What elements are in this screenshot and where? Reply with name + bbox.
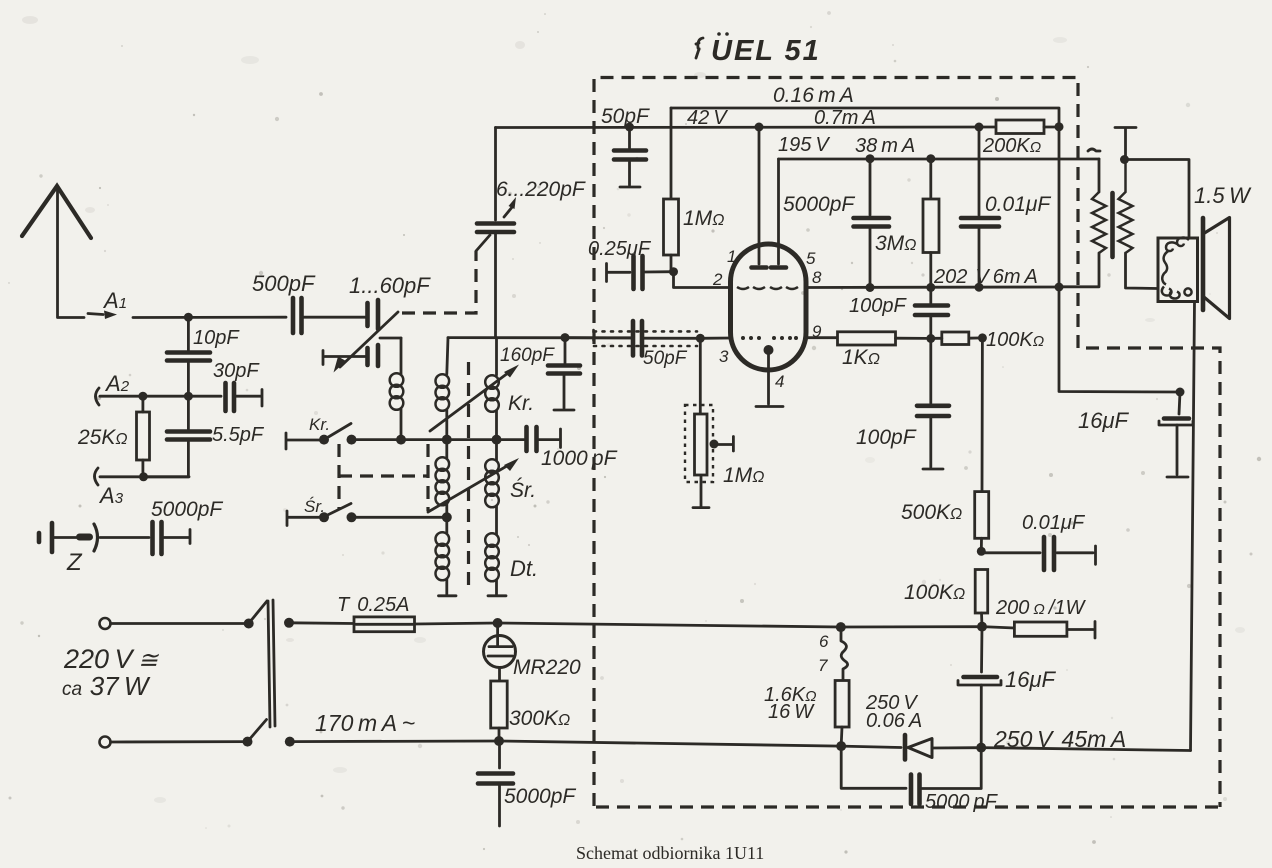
rectifier MR220 [484,623,582,681]
junction heater tap [836,622,846,632]
inductor coil A top section [436,338,450,440]
junction 16uF output [1176,388,1185,397]
wire A3 [100,475,189,478]
junction Kr contact [347,435,357,445]
wire speaker return [1191,302,1195,751]
svg-text:T 0.25A: T 0.25A [337,594,410,616]
switch Sr [287,497,351,526]
svg-text:Schemat odbiornika 1U11: Schemat odbiornika 1U11 [576,843,764,863]
transformer primary bottom lead [1059,253,1099,287]
svg-text:2: 2 [712,270,723,289]
junction mains switch top [244,619,254,629]
capacitor 30pF [213,360,262,411]
trimmer capacitor 1...60pF [323,273,431,373]
speaker cone [1205,218,1230,319]
antenna [22,186,117,319]
svg-text:Z: Z [66,549,83,576]
inductor coil A mid section [436,440,450,518]
arrow tuning Sr core [428,458,519,512]
svg-text:Dt.: Dt. [510,556,538,581]
transformer primary lead [1098,159,1101,192]
wire B+ vertical lower [1059,287,1180,392]
wire coil top bus [448,336,631,339]
resistor 300K [491,681,571,741]
wire Kr bus [352,438,525,441]
junction 0.01 bottom [975,283,984,292]
diode 250V 0.06A [841,692,978,760]
svg-text:0.7m A: 0.7m A [814,107,876,129]
capacitor 0.25uF [588,238,674,289]
resistor 1M (grid leak) [664,108,725,272]
tube grid1 cap [752,265,767,270]
svg-text:5.5pF: 5.5pF [212,424,265,446]
svg-text:5000pF: 5000pF [783,193,855,216]
arrow tuning Kr core [430,365,519,432]
svg-text:7: 7 [818,656,828,675]
junction 1M/0.25uF [669,267,678,276]
svg-text:16 W: 16 W [768,701,815,723]
fuse T0.25A [337,594,415,632]
junction 202V right [1055,283,1064,292]
junction 100K node [978,333,987,342]
wire heater return rail [290,741,841,746]
heater pins 6-7 link [818,630,848,680]
svg-text:202 V 6m A: 202 V 6m A [933,266,1038,288]
resistor 3M [875,154,939,287]
capacitor 160pF [500,333,580,410]
junction Sr pivot [319,512,329,522]
junction 500K/100K [977,547,986,556]
inductor coil B mid section (Sr) [485,440,536,534]
dashed switch gang link [337,444,340,510]
svg-text:195 V: 195 V [778,134,830,156]
junction A2/25K [138,392,147,401]
capacitor 50pF (grid3 coupling) [565,321,700,369]
dashed coil unit boundary [467,362,470,585]
capacitor 50pF (top) [601,105,650,187]
capacitor 16uF (output) [1078,392,1193,477]
svg-text:6...220pF: 6...220pF [496,178,586,201]
wire fuse to MR220 [415,623,498,624]
junction 1.6K bottom [836,741,846,751]
svg-text:100pF: 100pF [849,295,907,317]
dashed gang link 1...60pF to 6...220pF [402,251,476,313]
junction mains switch bottom [243,737,253,747]
svg-text:Kr.: Kr. [309,415,330,434]
svg-text:5000 pF: 5000 pF [925,791,999,813]
transformer secondary bottom lead [1126,253,1159,289]
mains terminal bottom [100,737,111,748]
junction coil1 bottom [396,435,406,445]
junction coilA Sr [442,512,452,522]
svg-text:Kr.: Kr. [508,392,534,415]
svg-text:30pF: 30pF [213,360,260,382]
switch Kr [286,415,351,449]
tube cathode lead + ground [756,355,783,407]
wire mains bottom left [111,740,248,743]
svg-text:160pF: 160pF [500,345,555,366]
junction A1/10pF [184,313,193,322]
wire anode rail 195V [779,158,1100,161]
junction A2/10pF [184,392,193,401]
wire 202V rail [806,286,1059,289]
capacitor 5000pF (anode) [783,154,889,287]
resistor 100K (divider lower) [904,570,988,627]
svg-text:1: 1 [727,247,736,266]
resistor 500K [901,338,989,551]
svg-text:170 m A ~: 170 m A ~ [315,710,415,736]
inductor coil B bottom section (Dt) [485,533,538,596]
svg-text:0.25μF: 0.25μF [588,238,652,260]
tube cathode dot [764,345,774,355]
node A3 [95,468,124,508]
capacitor 5000pF (antenna earth) [151,498,223,554]
dashed switch gang link right [426,444,429,511]
inductor coil A bottom section [436,517,457,596]
svg-text:6: 6 [819,632,829,651]
junction 16uF mid top [977,622,987,632]
svg-text:50pF: 50pF [643,348,688,369]
svg-text:38 m A: 38 m A [855,135,915,157]
mains terminal top [100,618,111,629]
capacitor 1000pF [527,427,618,470]
junction 3M bottom [926,283,935,292]
tube anode cap [771,265,786,270]
svg-text:500pF: 500pF [252,271,316,296]
svg-text:5000pF: 5000pF [151,498,223,521]
capacitor 5.5pF [143,396,265,477]
wire B+ vertical [1058,127,1061,287]
junction A3/25K [139,472,148,481]
svg-text:16μF: 16μF [1078,408,1130,433]
inductor coil B top section (Kr) [485,338,534,440]
svg-text:220 V ≅: 220 V ≅ [63,644,160,674]
dashed gang link 220pF rotor [476,235,490,251]
svg-text:100KΩ: 100KΩ [986,329,1044,351]
junction grid1 lead [755,123,764,132]
svg-text:0.06 A: 0.06 A [866,710,922,732]
capacitor 500pF [252,271,316,333]
svg-text:1.5 W: 1.5 W [1194,183,1252,208]
svg-text:1000 pF: 1000 pF [541,447,618,470]
svg-text:3: 3 [719,347,729,366]
wire Sr bus [352,516,447,519]
capacitor 16uF (cathode mid) [958,627,1057,748]
tube anode top lead [777,159,780,264]
svg-text:0.16 m A: 0.16 m A [773,84,854,107]
tube grid1 top lead [758,127,761,264]
wire 42V rail [496,126,996,129]
transformer secondary terminal [1115,128,1136,160]
svg-text:0.01μF: 0.01μF [1022,512,1086,534]
capacitor 5000pF (mains filter) [478,741,576,826]
switch mains top arm [249,601,267,623]
junction coilB mid [492,435,502,445]
junction mains fuse side [284,618,294,628]
svg-text:4: 4 [775,372,784,391]
capacitor 10pF [167,317,240,396]
speaker cone bar [1201,218,1206,310]
svg-text:8: 8 [812,268,822,287]
svg-text:200 Ω /1W: 200 Ω /1W [995,597,1086,619]
dashed gang crossbar [339,474,428,477]
tube UEL51 envelope [731,244,807,370]
junction 1K/100pF [926,334,935,343]
tube pin numbers [712,247,822,391]
capacitor 0.01uF (tone) [984,512,1096,570]
ground Z chassis [39,523,149,552]
junction Kr pivot [319,435,329,445]
resistor 25K [77,396,150,477]
capacitor 5000pF (diode bypass) [841,746,998,813]
junction 200K right [1055,122,1064,131]
capacitor 0.01uF (top) [961,127,1051,288]
wire A1 [133,316,286,319]
svg-text:16μF: 16μF [1005,667,1057,692]
resistor 200R 1W [995,597,1095,638]
speaker voice coil dot [1184,288,1191,295]
wire 500pF to trimmer [304,316,365,319]
wire secondary to voice coil [1125,160,1190,239]
switch mains bottom arm [248,720,267,742]
tube grid2 dots [741,336,798,340]
switch mains link bars [268,600,275,727]
wire 0.16mA rail [671,108,1059,127]
svg-text:UEL 51: UEL 51 [711,35,821,67]
speaker voice-coil box [1158,238,1198,302]
speaker voice coil [1162,237,1189,298]
transformer primary winding [1092,192,1106,253]
dashed UEL51 enclosure [594,78,1220,808]
svg-text:MR220: MR220 [513,656,581,679]
junction 300K bottom [494,736,504,746]
label UEL 51 [696,32,821,67]
svg-text:Śr.: Śr. [510,478,536,502]
svg-text:5000pF: 5000pF [504,785,576,808]
junction coilA mid [442,435,452,445]
svg-text:42 V: 42 V [687,107,728,129]
wire pin9 cathode rail [806,336,837,339]
junction MR220 [493,618,503,628]
svg-text:1...60pF: 1...60pF [349,273,431,298]
trimmer capacitor 6...220pF [477,128,586,338]
node A2 [96,371,130,405]
wire to tube pin2 [674,272,732,288]
junction secondary top [1120,155,1129,164]
inductor antenna coil [390,338,404,440]
transformer secondary winding [1119,160,1133,254]
transformer tilde mark [1088,149,1100,151]
transformer core [1110,193,1115,257]
resistor 100K (small) [935,329,1044,351]
wire mains top left [111,622,249,625]
wire to fuse [289,621,354,625]
wire heater rail [498,623,1015,628]
junction 42V/200K left [975,123,984,132]
wire diode to speaker return [981,748,1190,751]
junction Sr contact [347,512,357,522]
junction mains bottom right [285,737,295,747]
junction grid3 node [696,334,705,343]
resistor 200K [982,120,1059,157]
capacitor 100pF (lower) [856,339,949,470]
potentiometer 1M (volume) [685,338,764,507]
wire to tube pin3 [700,337,731,340]
tube grid dashes [737,287,798,289]
svg-text:200KΩ: 200KΩ [982,135,1041,157]
junction 5000pF bottom [866,283,875,292]
svg-text:10pF: 10pF [193,327,240,349]
junction diode output [976,743,986,753]
svg-text:50pF: 50pF [601,105,650,128]
wire A2 [100,395,221,398]
capacitor 100pF (screen divider top) [849,287,948,338]
resistor 1K [838,332,927,369]
svg-text:5: 5 [806,249,816,268]
resistor 1.6K 16W [764,681,849,746]
svg-text:0.01μF: 0.01μF [985,193,1051,216]
svg-text:100pF: 100pF [856,426,917,449]
